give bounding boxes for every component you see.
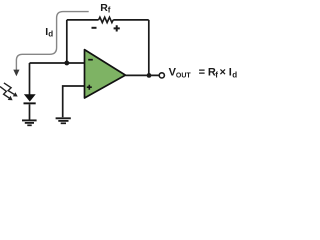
ground under photodiode: [22, 120, 37, 125]
wire photodiode anode vertical: [29, 63, 31, 95]
wire feedback top-left: [67, 19, 99, 21]
light arrow 2: [0, 87, 13, 101]
node A junction dot: [64, 61, 69, 66]
ground at non-inverting input: [56, 118, 71, 123]
wire feedback top-right: [113, 19, 149, 21]
svg-text:VOUT=Rf×Id: VOUT=Rf×Id: [169, 67, 238, 80]
polarity plus under Rf: [114, 25, 120, 31]
output junction dot: [147, 73, 152, 78]
light arrow 1: [4, 83, 18, 97]
op-amp minus pin mark: [88, 59, 93, 61]
current direction path Id (gray): [13, 12, 88, 77]
wire output: [125, 74, 159, 76]
svg-text:Rf: Rf: [100, 2, 111, 15]
wire inverting input horizontal: [30, 62, 85, 64]
resistor Rf: [99, 17, 114, 22]
wire feedback right vertical: [148, 20, 150, 76]
polarity minus under Rf: [92, 27, 97, 29]
op-amp plus pin mark: [87, 85, 92, 90]
op-amp U1: [85, 50, 126, 98]
wire feedback left vertical: [66, 20, 68, 63]
wire diode cathode to ground: [29, 104, 31, 120]
wire non-inverting input: [63, 86, 85, 117]
photodiode D1: [24, 94, 36, 104]
svg-text:Id: Id: [45, 26, 53, 38]
output terminal circle: [159, 73, 164, 78]
